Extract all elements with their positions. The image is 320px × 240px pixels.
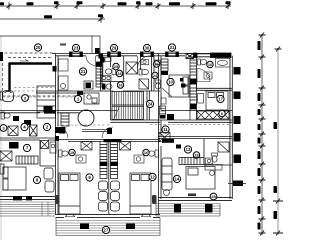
bath18 toilet xyxy=(212,153,218,162)
wall bath separator x=123 xyxy=(123,56,125,82)
svg-text:27: 27 xyxy=(104,228,109,233)
node circled 23 top xyxy=(72,44,79,51)
window pedestal under circle 31 xyxy=(166,52,179,57)
dashed kitchen line xyxy=(0,88,55,92)
svg-text:29: 29 xyxy=(112,46,117,51)
node black marks near bed 10 xyxy=(180,78,184,82)
node circled 6 strip xyxy=(219,110,225,116)
svg-text:20: 20 xyxy=(36,45,41,50)
bath A cistern black xyxy=(100,57,105,63)
bath A toilet xyxy=(105,69,115,75)
door arc corridor left xyxy=(57,127,68,138)
wall bottom-left outer y=197 xyxy=(0,196,56,199)
door arc corridor right xyxy=(102,127,113,138)
wall bath separator x=140.5 xyxy=(140,56,142,70)
window mark terrace center b xyxy=(126,224,135,230)
room 10 toilet lower xyxy=(161,98,166,104)
door diag into room10 lower xyxy=(162,88,172,97)
node circled 25 xyxy=(113,63,119,69)
node circled 23b xyxy=(116,70,122,76)
window mark right wall y=91.5 xyxy=(234,92,241,100)
wall thick garden L-wall xyxy=(9,63,52,92)
wardrobe column B room 12 xyxy=(111,142,118,179)
node circled 27 xyxy=(102,226,109,233)
room 7 desk black xyxy=(9,142,19,149)
wardrobe column A rooms 9 xyxy=(100,142,107,179)
bath B toilet xyxy=(139,69,148,75)
shower box left bath xyxy=(8,126,18,136)
wire right dimension line 2 xyxy=(277,48,279,235)
window mark bottom-left b xyxy=(26,196,32,200)
window mark terrace right b xyxy=(205,204,213,213)
node dark label marks left bath xyxy=(13,116,19,121)
node circled 3 left edge xyxy=(0,125,7,132)
armchairs room 8 xyxy=(0,164,54,192)
svg-text:25: 25 xyxy=(114,65,118,69)
bed room 10 xyxy=(169,75,189,97)
svg-text:16: 16 xyxy=(144,151,148,155)
door arc room1 top xyxy=(86,56,96,66)
wall bath horizontal y=81.5 xyxy=(101,81,125,83)
room 12 toilet xyxy=(148,150,158,157)
wall right spine x=159 xyxy=(159,54,162,216)
door arc entry xyxy=(138,56,151,69)
node black kitchen appliance xyxy=(44,106,53,112)
round chair room 14 xyxy=(164,190,170,196)
wire faint left page edge xyxy=(0,36,2,240)
wall left block bath x=40 xyxy=(40,140,56,166)
toilet D lower bath xyxy=(102,84,112,90)
left block bath cabinet xyxy=(50,142,56,153)
node dark chair room 9 xyxy=(55,195,60,204)
node circled 26 xyxy=(153,61,159,67)
svg-text:30: 30 xyxy=(145,46,150,51)
node black mark room13 xyxy=(176,145,181,149)
window mark right wall y=116 xyxy=(234,116,241,124)
dashed corridor line right xyxy=(150,124,230,126)
wall left spine x=57 xyxy=(56,54,59,216)
kitchen counter along left xyxy=(37,86,56,118)
hatch box top-left room13 xyxy=(159,133,170,142)
window mark right wall y=154.5 xyxy=(234,155,242,164)
window pedestal under circle 30 xyxy=(141,52,154,57)
node shaft hatch right of stair xyxy=(160,106,166,115)
shower B2 xyxy=(139,79,149,89)
wall corridor vertical x=101 xyxy=(101,56,103,91)
node circled 7 xyxy=(23,144,30,151)
svg-text:23: 23 xyxy=(74,46,79,51)
wire dashed patio outline upper-left xyxy=(3,53,81,96)
node circled 31 top xyxy=(168,44,175,51)
wardrobe hatch room 7 xyxy=(16,156,38,164)
room 7 dresser with X xyxy=(0,151,12,161)
desk room 14 xyxy=(205,165,222,176)
door arc bath 16 xyxy=(197,69,210,82)
terrace hatch bottom-left xyxy=(0,202,55,216)
window pedestal under circle 23 xyxy=(70,52,83,57)
node dark chair room 12 xyxy=(152,195,157,204)
node dimension text blobs line B xyxy=(44,14,103,18)
wall center divider x=108.8 xyxy=(108,142,110,216)
node circled 17 xyxy=(217,95,224,102)
small fixture on spine wall xyxy=(59,59,69,90)
wardrobe hatch strip right block xyxy=(197,111,229,119)
wall main top double y=53.5 xyxy=(52,54,231,56)
wall bottom-center outer y=215 xyxy=(56,214,161,217)
svg-text:17: 17 xyxy=(218,97,223,102)
node circled 20 xyxy=(34,44,41,51)
node right dimension rotated text blobs xyxy=(258,41,278,230)
bath A small box xyxy=(105,58,111,62)
window mark terrace right a xyxy=(174,204,181,213)
wall right corridor bottom y=137.5 xyxy=(159,137,233,139)
wall bath separator x=151.5 xyxy=(152,56,155,91)
room 9 sink xyxy=(76,155,86,163)
bed room 8 xyxy=(3,167,26,190)
wall left block top y=137 xyxy=(0,138,56,140)
wardrobe column corridor b xyxy=(61,113,69,126)
bed room 14 xyxy=(186,167,215,190)
room 9 toilet xyxy=(59,150,69,157)
svg-text:16: 16 xyxy=(208,63,212,67)
wc strip sink xyxy=(155,60,160,65)
svg-text:19: 19 xyxy=(70,151,74,155)
node circled 9 xyxy=(86,174,93,181)
svg-text:31: 31 xyxy=(170,45,175,50)
room 12 shower xyxy=(120,142,131,151)
node black dim mark right wall y=183 xyxy=(233,181,243,187)
room 12 sink xyxy=(134,155,144,163)
bath 16 toilet xyxy=(198,59,207,65)
node tiny dim text above wall xyxy=(60,44,66,46)
wardrobe hatch room 10 xyxy=(161,59,168,71)
wire top dimension line B xyxy=(0,18,105,20)
svg-text:21: 21 xyxy=(81,69,86,74)
kitchen sink block room1 xyxy=(84,81,99,104)
node circled 24 stair xyxy=(146,100,153,107)
svg-text:6: 6 xyxy=(221,112,223,116)
wall bath horizontal y=91 xyxy=(101,90,161,92)
svg-text:23: 23 xyxy=(117,72,121,76)
svg-text:14: 14 xyxy=(175,177,180,182)
node circled 30 top xyxy=(143,44,150,51)
bath18 sink xyxy=(206,158,213,164)
window mark right wall y=67 xyxy=(234,67,241,75)
wall kitchen top y=91 xyxy=(36,91,101,93)
node circled 13 xyxy=(184,146,191,153)
wall corridor stub y=130 xyxy=(82,130,111,132)
armchair patio xyxy=(0,91,14,102)
node black door sill at 44,110 xyxy=(44,110,56,114)
node circled 3a xyxy=(22,95,29,102)
node dimension text blobs line A xyxy=(0,1,231,5)
stair enclosure walls xyxy=(111,56,150,120)
wire roof outline top-left xyxy=(0,36,100,53)
wall rooms 9 and 12 top y=140 xyxy=(57,140,160,142)
left block bath shower xyxy=(41,141,49,149)
wall bath18 x=204 xyxy=(204,139,232,165)
bath B sink xyxy=(141,60,149,65)
node gap arrows bottom-center xyxy=(65,215,151,216)
node circled 1 xyxy=(74,95,81,102)
window mark bottom-left a xyxy=(13,196,22,200)
wall right outer x=230 xyxy=(230,54,232,200)
wall top-right thick with hatch box xyxy=(186,53,231,59)
node ticks dimension line A xyxy=(7,3,231,10)
window mark right wall y=133 xyxy=(234,133,241,142)
svg-text:28: 28 xyxy=(211,194,216,199)
node circled 26b xyxy=(117,82,123,88)
node ticks right dimension line 2 xyxy=(273,47,283,236)
node circled small bath 12 xyxy=(143,149,149,155)
round table room 1 xyxy=(78,110,94,126)
node small dim text above wall xyxy=(188,194,196,197)
node circled small bath 9 xyxy=(69,149,75,155)
bed room 9 xyxy=(59,173,80,214)
node circled 28 xyxy=(210,193,217,200)
wall room1 bottom / left block y=111 xyxy=(0,111,117,113)
node circled 16 xyxy=(207,61,213,67)
svg-text:26: 26 xyxy=(118,84,122,88)
node circled 12 xyxy=(149,173,156,180)
node circled 11 xyxy=(162,126,169,133)
wall y=88.5 rooms16-17 xyxy=(197,79,233,90)
bath 16 bathtub xyxy=(216,59,231,68)
bed room 12 xyxy=(130,173,151,214)
node circled 2 xyxy=(43,123,50,130)
node circled 4 xyxy=(21,123,28,130)
svg-text:10: 10 xyxy=(168,80,173,85)
svg-text:18: 18 xyxy=(194,154,198,158)
stair flight treads xyxy=(112,92,144,120)
wall right block bottom y=198.5 xyxy=(159,198,233,201)
node ticks right dimension line 1 xyxy=(259,33,266,236)
room 9 shower xyxy=(81,142,92,151)
node tick dimension line B xyxy=(99,16,104,23)
node black door marks on spine xyxy=(53,66,57,72)
bath 16 sink xyxy=(204,72,212,79)
node circled 18 xyxy=(193,152,199,158)
wire right dimension line 1 xyxy=(261,35,263,235)
wardrobe column corridor a xyxy=(30,125,38,136)
node circled 8 xyxy=(33,176,40,183)
window pedestal under circle 29 xyxy=(108,52,121,57)
node circled 29 top xyxy=(110,44,117,51)
bath18 shower xyxy=(218,142,229,152)
svg-text:11: 11 xyxy=(163,127,168,132)
terrace hatch bottom-right xyxy=(156,204,220,217)
dresser room17 xyxy=(198,94,204,104)
cushion train room 9 xyxy=(99,181,108,211)
node black mark left edge top xyxy=(0,52,3,61)
wall chimney column kitchen xyxy=(96,62,102,87)
node circled 10 xyxy=(167,78,174,85)
svg-text:12: 12 xyxy=(150,175,155,180)
node black fixture right of spine xyxy=(59,127,66,134)
svg-text:13: 13 xyxy=(186,147,191,152)
wall wardrobe strip top y=110.5 right block xyxy=(161,110,232,112)
bath A basin xyxy=(101,76,111,82)
node black mark strip xyxy=(167,114,174,120)
dashed corridor line center xyxy=(57,124,110,126)
svg-text:24: 24 xyxy=(148,102,153,107)
wire top dimension line A xyxy=(0,5,231,7)
node circled 24b xyxy=(152,72,158,78)
node black wall segment rooms 9-12 xyxy=(104,139,122,142)
cushion train room 12 xyxy=(111,181,120,211)
wall hatched column right block x=190 xyxy=(190,57,197,120)
wall under stair and right corridor y=120 xyxy=(111,120,233,122)
dashed patio line mid xyxy=(3,96,81,98)
node circled 21 xyxy=(79,68,86,75)
node circled 14 xyxy=(173,175,180,182)
bed room 17 xyxy=(206,91,228,110)
left bath toilet xyxy=(1,112,10,119)
node black chimney cap above wall xyxy=(95,48,100,54)
sofa room 14 xyxy=(162,158,172,190)
window mark terrace center a xyxy=(80,224,89,230)
terrace hatch bottom-center xyxy=(56,218,160,236)
wardrobe hatch room 14 xyxy=(179,158,204,165)
bath B shower xyxy=(126,62,138,74)
wc strip toilet xyxy=(155,80,160,89)
node small arrow mark on wall xyxy=(20,60,28,62)
node black door sill right corridor xyxy=(162,139,174,143)
